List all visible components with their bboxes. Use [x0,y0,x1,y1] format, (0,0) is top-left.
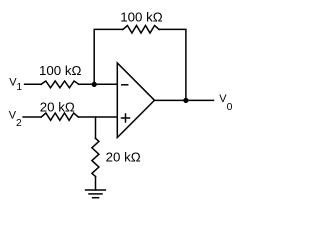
svg-text:V0: V0 [219,93,232,113]
svg-text:100 kΩ: 100 kΩ [120,10,163,25]
svg-text:V1: V1 [9,76,22,92]
svg-text:20 kΩ: 20 kΩ [40,99,75,114]
svg-text:100 kΩ: 100 kΩ [39,63,82,78]
svg-text:V2: V2 [9,109,22,129]
svg-text:20 kΩ: 20 kΩ [106,150,141,165]
